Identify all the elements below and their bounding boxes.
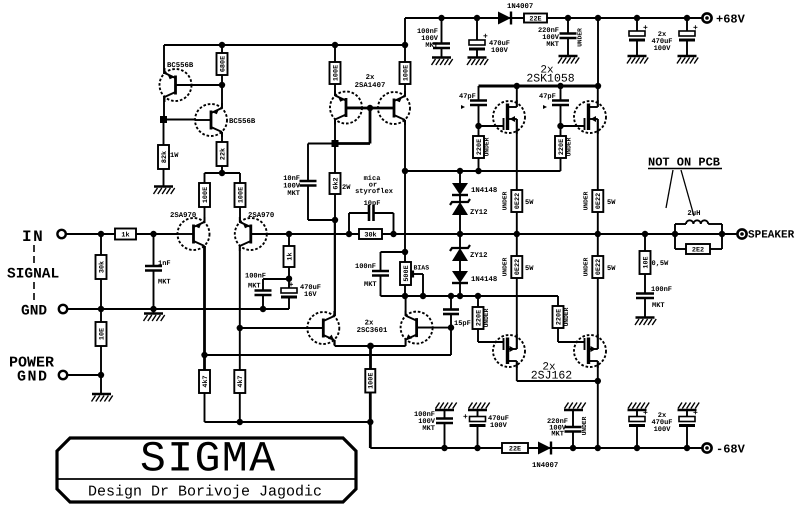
wire IN to 1k (66, 231, 115, 237)
wire 6k2 bottom (332, 194, 338, 223)
svg-text:15pF: 15pF (454, 320, 471, 328)
capacitor 10nF 100V (300, 181, 317, 186)
label + 470uF bottom (463, 413, 468, 422)
node +68V terminal (702, 13, 711, 22)
wire 10E top (100, 309, 102, 322)
transistor Q7 2SC3601 (307, 311, 339, 345)
svg-text:UNDER: UNDER (563, 307, 570, 326)
label 1N4007 top (507, 3, 533, 11)
wire zobel bottom (644, 298, 646, 317)
wire 22k bottom (219, 166, 225, 176)
ground 220nF bottom (564, 403, 586, 411)
label 2SA970 Q4 (248, 212, 274, 220)
svg-text:BIAS: BIAS (414, 265, 430, 272)
resistor 220E M3 (473, 307, 484, 329)
wire Q2 collector down (221, 132, 223, 142)
wire Q4 collector down (239, 246, 241, 370)
label UNDER 220E M1 (484, 137, 491, 156)
svg-text:BC556B: BC556B (167, 62, 194, 70)
diode 1N4148 D1 (452, 183, 468, 195)
mosfet M4 2SJ162 (574, 334, 606, 368)
label mica or styroflex (355, 174, 394, 196)
label 0,5W (652, 260, 670, 268)
label + PSU2 (693, 24, 698, 33)
resistor 220E M1 (473, 136, 484, 158)
wire 1k fb bottom (286, 267, 292, 282)
label + PSU1 (643, 24, 648, 33)
svg-text:100E: 100E (402, 65, 410, 81)
diode 1N4007 bottom (538, 442, 551, 455)
svg-text:0E22: 0E22 (595, 259, 603, 275)
svg-text:ZY12: ZY12 (470, 252, 488, 260)
wire D1 to Z1 (459, 195, 461, 202)
wire 10E bottom (98, 346, 104, 378)
svg-text:100V: 100V (491, 47, 509, 55)
wire M4 drain (597, 361, 599, 381)
resistor 30k fb (359, 229, 382, 239)
wire 47pF M2 top (560, 86, 562, 101)
mosfet M1 2SK1058 (493, 100, 525, 134)
svg-text:5W: 5W (607, 199, 616, 207)
wire M2 source (597, 119, 599, 190)
wire 0E22 M2 bottom (597, 212, 599, 234)
wire PSU1 top (634, 15, 640, 31)
label UNDER 220E M3 (483, 308, 490, 327)
label 47pF M2 (539, 93, 556, 109)
label MKT zobel (652, 302, 665, 310)
svg-text:SIGNAL: SIGNAL (7, 267, 59, 283)
label 10nF 100V MKT (283, 175, 301, 198)
wire trimmer bottom (404, 285, 406, 296)
resistor 0E22 M2 (592, 190, 603, 212)
wire 100nF top wire (438, 15, 444, 44)
label 2x 2SC3601 (357, 320, 388, 336)
svg-text:4k7: 4k7 (202, 375, 210, 387)
svg-text:Design Dr Borivoje Jagodic: Design Dr Borivoje Jagodic (88, 484, 322, 501)
label 100nF bias (355, 263, 376, 271)
wire 10nF branch (308, 144, 335, 182)
wire signal gnd line (67, 306, 289, 312)
svg-text:100E: 100E (332, 65, 340, 81)
label 2W (342, 184, 351, 192)
capacitor 1nF (145, 266, 162, 271)
wire BC556B Q1 emitter to rail (163, 45, 165, 74)
label 470uF 16V (300, 284, 321, 299)
wire 1nF top (153, 234, 155, 266)
wire Z2 to D2 (459, 261, 461, 271)
label MKT 1nF (158, 279, 171, 287)
label UNDER 0E22 M3 (502, 257, 509, 276)
wire 470uF top wire (474, 15, 480, 40)
label BC556B Q1 (167, 62, 194, 70)
svg-text:2SA970: 2SA970 (170, 212, 196, 220)
svg-text:100E: 100E (237, 187, 245, 203)
svg-text:MKT: MKT (422, 425, 435, 433)
svg-text:styroflex: styroflex (355, 187, 394, 196)
capacitor 470uF 16V (281, 288, 297, 299)
wire 15pF bottom (450, 314, 452, 328)
capacitor 100nF fb (255, 291, 272, 296)
wire 100E to Q4 emitter (239, 207, 241, 223)
resistor 4k7 R11 (199, 370, 210, 393)
label MKT bias (364, 281, 377, 289)
wire Q2 emitter up (221, 85, 223, 108)
node speaker terminal (737, 229, 746, 238)
svg-text:4k7: 4k7 (237, 375, 245, 387)
capacitor 100nF bottom (436, 419, 453, 424)
wire +68V top rail (405, 17, 707, 19)
ground 100nF bottom (435, 403, 457, 411)
svg-text:2SA970: 2SA970 (248, 212, 274, 220)
transistor Q3 2SA970 (178, 217, 210, 251)
wire 100E tail top (thick) (369, 346, 372, 369)
wire M1 source (516, 119, 518, 190)
svg-text:UNDER: UNDER (502, 191, 509, 210)
label 1nF (158, 260, 171, 268)
svg-text:2E2: 2E2 (692, 246, 704, 254)
resistor 4k7 R12 (234, 370, 245, 393)
resistor 0E22 M1 (511, 190, 522, 212)
wire 10pF detour (349, 213, 394, 234)
label 100nF 100V MKT bottom (414, 411, 436, 433)
resistor 1k input (115, 229, 136, 240)
svg-text:UNDER: UNDER (483, 308, 490, 327)
wire to speaker (722, 233, 738, 235)
wire 220E M1 bottom (478, 158, 480, 171)
svg-text:47pF: 47pF (539, 93, 556, 101)
wire -68V rail (370, 447, 707, 449)
svg-text:UNDER: UNDER (581, 416, 588, 435)
wire leader line 1 (666, 170, 673, 208)
wire M2 drain (597, 86, 599, 107)
label UNDER 0E22 M4 (583, 257, 590, 276)
svg-text:UNDER: UNDER (566, 137, 573, 156)
node +68V rail junction (219, 42, 408, 48)
label 2x 470uF 100V bottom (651, 412, 672, 434)
wire drv1 emitter (334, 84, 336, 96)
label 5W M4 (607, 265, 616, 273)
label separator dash 2 (33, 282, 35, 300)
label 2x 2SJ162 (531, 362, 573, 383)
transistor Q2 BC556B (195, 103, 227, 137)
wire Q8 base to 15pF node (417, 324, 455, 330)
wire diode string top (459, 171, 461, 183)
resistor 100E driver1 (330, 62, 341, 84)
capacitor 47pF M2 (552, 101, 569, 106)
wire Q7 base (240, 327, 308, 329)
capacitor 220nF bottom (565, 427, 582, 432)
wire 47pF M2 bottom (557, 105, 563, 129)
wire output to Z2 (459, 234, 461, 248)
svg-text:5W: 5W (525, 199, 534, 207)
wire M3 drain (516, 361, 518, 381)
wire BC556B Q1 collector down (163, 96, 165, 120)
svg-text:500E: 500E (403, 265, 411, 281)
svg-text:NOT ON PCB: NOT ON PCB (648, 156, 720, 170)
label 2x 2SK1058 (526, 65, 574, 86)
zener ZY12 Z1 (450, 199, 470, 215)
wire 0E22 M1 bottom (516, 212, 518, 234)
wire 82k bottom to ground (163, 169, 165, 186)
wire Q1 base to 680E node (176, 84, 223, 86)
svg-text:100nF: 100nF (651, 286, 672, 294)
node drv1 collector junction (332, 140, 339, 147)
wire 680E bottom (219, 75, 225, 88)
svg-text:2x: 2x (366, 74, 375, 82)
svg-text:100nF: 100nF (355, 263, 376, 271)
svg-text:100E: 100E (202, 187, 210, 203)
svg-text:MKT: MKT (248, 283, 261, 291)
resistor 10E zobel (640, 251, 651, 274)
svg-text:1N4007: 1N4007 (507, 3, 533, 11)
wire 220nF bottom wires (572, 410, 574, 448)
wire drv2 emitter (404, 84, 406, 96)
svg-text:+: + (693, 24, 698, 33)
wire drv base L down (thick) (335, 108, 370, 144)
label 1N4007 bottom (532, 462, 558, 470)
ground 100nF top (432, 58, 453, 66)
svg-text:BC556B: BC556B (229, 118, 256, 126)
mosfet M3 2SJ162 (493, 334, 525, 368)
wire PSU2 gnd (686, 42, 688, 56)
svg-text:+: + (289, 281, 294, 290)
svg-text:MKT: MKT (287, 190, 300, 198)
wire 220E M4 top (557, 296, 559, 306)
wire Q4 base to fb node (267, 231, 292, 237)
wire zener Z1 to output (459, 215, 461, 234)
label 2uH (687, 210, 700, 218)
node VAS takeoff (201, 352, 207, 358)
resistor 0E22 M3 (511, 256, 522, 278)
ground PSU1 (627, 56, 648, 64)
capacitor 470uF PSU3 (629, 417, 645, 428)
capacitor 470uF PSU1 top (629, 31, 645, 42)
svg-text:100V: 100V (654, 45, 672, 53)
wire drv1 collector (334, 120, 336, 144)
title box frame (57, 438, 356, 502)
label SPEAKER (748, 230, 795, 242)
wire drv bases (thick) (346, 105, 394, 111)
wire 30k top (100, 234, 102, 255)
svg-text:SIGMA: SIGMA (140, 435, 277, 484)
label 220nF 100V MKT bottom (547, 418, 568, 439)
svg-text:MKT: MKT (425, 42, 438, 50)
node output junctions (346, 231, 725, 237)
svg-text:82k: 82k (161, 151, 169, 163)
wire fb cap branch (263, 279, 289, 291)
wire trimmer top (404, 252, 406, 262)
svg-text:22E: 22E (529, 15, 541, 23)
svg-text:10pF: 10pF (364, 200, 381, 208)
label 1N4148 D2 (471, 276, 497, 284)
wire Q7 collector (334, 220, 336, 316)
wire PSU3 wires (636, 410, 638, 448)
label ZY12 Z2 (470, 252, 488, 260)
wire 0E22 M3 top (516, 234, 518, 256)
svg-text:1N4007: 1N4007 (532, 462, 558, 470)
label IN (22, 228, 44, 246)
svg-text:2SA1407: 2SA1407 (355, 82, 386, 90)
wire PSU2 top (684, 15, 690, 31)
svg-text:22k: 22k (219, 148, 227, 160)
wire 10nF bottom (308, 186, 335, 221)
label UNDER 220E M2 (566, 137, 573, 156)
wire zobel top (644, 234, 646, 251)
resistor 10E input (96, 322, 107, 346)
wire Q8 collector (405, 296, 407, 316)
wire 220E M3 top (477, 296, 479, 307)
svg-text:100E: 100E (368, 373, 376, 389)
label GND signal (21, 304, 47, 320)
wire LR frame right (721, 224, 723, 249)
svg-text:UNDER: UNDER (583, 191, 590, 210)
ground PSU3 (628, 403, 650, 411)
wire base link to Q2 (164, 119, 196, 121)
capacitor 10pF styroflex (369, 205, 374, 221)
wire 680E top (221, 45, 223, 53)
resistor 22E top (524, 14, 547, 24)
transistor Q5 2SA1407 (330, 91, 362, 125)
wire 220nF gnd (567, 38, 569, 56)
label UNDER 220nF bottom (581, 416, 588, 435)
label 15pF (454, 320, 471, 328)
svg-text:100V: 100V (490, 422, 508, 430)
svg-text:ZY12: ZY12 (470, 209, 488, 217)
label + 470uF top (483, 33, 488, 42)
node IN terminal (57, 230, 65, 238)
resistor 100E R6 (235, 183, 246, 207)
label + PSU3 (643, 409, 648, 418)
resistor 100E R5 (199, 183, 210, 207)
wire neg feed drop (thick) (369, 422, 372, 448)
wire 100E to Q3 emitter (204, 207, 206, 223)
label UNDER 220E M4 (563, 307, 570, 326)
label 10pF (364, 200, 381, 208)
ground PSU2 (677, 56, 698, 64)
wire 220nF top (565, 15, 571, 34)
label separator dash 1 (33, 245, 35, 263)
svg-text:GND: GND (21, 304, 47, 320)
label 2SA970 Q3 (170, 212, 196, 220)
wire PSU4 wires (686, 410, 688, 448)
capacitor 100nF zobel (636, 294, 654, 299)
wire gate bus lower (381, 293, 559, 299)
wire drain bus (thick) (479, 83, 602, 89)
label + PSU4 (693, 409, 698, 418)
wire 30k bottom (100, 279, 102, 309)
svg-text:SPEAKER: SPEAKER (748, 230, 795, 242)
wire 1nF bottom (153, 271, 155, 314)
label Design Dr Borivoje Jagodic (88, 484, 322, 501)
wire neg feed line (205, 421, 371, 423)
wire rail to drain bus (595, 15, 601, 86)
wire lower drain link (517, 378, 601, 384)
node Q4 collector base tap (237, 325, 243, 331)
label UNDER 0E22 M2 (583, 191, 590, 210)
label -68V (716, 443, 746, 457)
wire 15pF top (450, 296, 452, 310)
svg-text:UNDER: UNDER (583, 257, 590, 276)
wire drain to neg rail (595, 381, 601, 451)
svg-text:1nF: 1nF (158, 260, 171, 268)
svg-text:MKT: MKT (364, 281, 377, 289)
node signal gnd terminal (59, 305, 67, 313)
wire M1 gate (479, 125, 504, 127)
resistor 1k fb (284, 246, 295, 267)
label 5W M2 (607, 199, 616, 207)
resistor 0E22 M4 (592, 256, 603, 278)
svg-text:-68V: -68V (716, 443, 746, 457)
svg-text:30k: 30k (98, 261, 106, 273)
svg-text:0E22: 0E22 (514, 193, 522, 209)
label 1N4148 D1 (471, 187, 497, 195)
wire gate bus upper (402, 168, 561, 174)
label SIGMA (140, 435, 277, 484)
wire 47pF M1 bottom (475, 105, 481, 129)
capacitor 470uF bottom (470, 417, 486, 428)
label 2x 2SA1407 (355, 74, 386, 90)
label BC556B Q2 (229, 118, 256, 126)
wire M1 drain (516, 86, 518, 107)
svg-text:+: + (463, 413, 468, 422)
wire M4 source (597, 278, 599, 349)
svg-text:680E: 680E (219, 56, 227, 72)
mosfet M2 2SK1058 (574, 100, 606, 134)
svg-text:16V: 16V (304, 291, 317, 299)
svg-text:10E: 10E (98, 328, 106, 340)
ground 1nF (144, 314, 165, 322)
transistor Q8 2SC3601 (401, 311, 433, 345)
wire 100nF fb bottom (262, 295, 264, 309)
wire drv2 collector (404, 120, 406, 171)
wire M3 source (516, 278, 518, 349)
wire +68V left rail (164, 44, 405, 46)
label 470uF 100V top (489, 40, 510, 55)
label GND power (17, 369, 49, 386)
wire output line (289, 233, 736, 235)
wire 47pF M1 top (478, 86, 480, 101)
label 2x 470uF 100V top (651, 31, 672, 53)
svg-text:100nF: 100nF (245, 273, 266, 281)
zener ZY12 Z2 (450, 245, 470, 261)
label NOT ON PCB (648, 156, 722, 170)
wire 0E22 M4 top (597, 234, 599, 256)
svg-text:2SK1058: 2SK1058 (526, 73, 574, 86)
svg-text:5W: 5W (607, 265, 616, 273)
wire power gnd (67, 374, 101, 376)
capacitor 15pF (443, 310, 459, 315)
svg-text:1N4148: 1N4148 (471, 276, 497, 284)
svg-text:UNDER: UNDER (577, 28, 584, 47)
wire VAS collector line (334, 220, 336, 316)
resistor 100E tail (365, 369, 375, 393)
label MKT fb (248, 283, 261, 291)
wire 1k to base node (136, 231, 178, 237)
svg-text:GND: GND (17, 369, 49, 386)
svg-text:47pF: 47pF (459, 93, 476, 101)
wire VAS to first stage (205, 328, 452, 355)
label SIGNAL (7, 267, 59, 283)
wire 220E M4 gate (558, 328, 585, 342)
label 220nF 100V MKT top (538, 27, 560, 49)
wire 6k2 top (334, 144, 336, 174)
ground zobel (635, 318, 656, 326)
transistor Q6 2SA1407 (378, 91, 410, 125)
node -68V terminal (702, 443, 711, 452)
resistor 220E M4 (553, 306, 564, 328)
label 1W (170, 152, 179, 160)
svg-text:+: + (483, 33, 488, 42)
